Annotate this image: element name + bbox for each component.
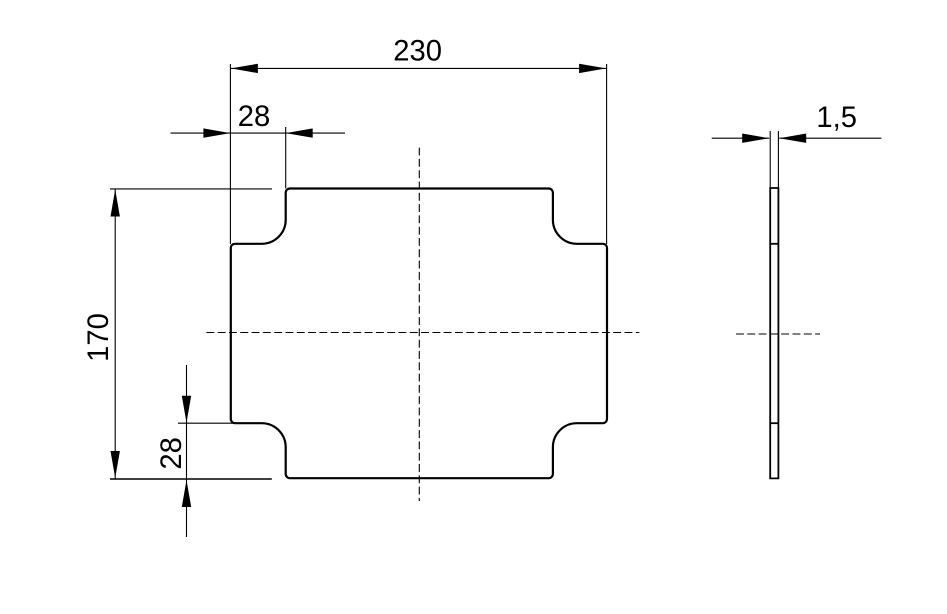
dimension line 230 xyxy=(230,67,606,69)
centerline horizontal side view xyxy=(736,333,820,335)
side view edge tick top xyxy=(770,243,778,245)
dimension line 1,5 left tail xyxy=(712,137,770,139)
arrow left dim 1,5 xyxy=(742,134,769,143)
arrow left dim 28 top xyxy=(203,128,230,137)
side view edge tick bottom xyxy=(770,422,778,424)
plate outline front view xyxy=(231,189,607,479)
svg-text:230: 230 xyxy=(393,35,442,67)
arrow top dim 170 xyxy=(111,190,120,217)
extension line right x=606.6 for dim 230 xyxy=(606,64,608,244)
extension line y=423.2 for dim 28 bottom xyxy=(178,422,235,424)
extension line bottom y=477.5 for dims 170 and 28 xyxy=(110,478,272,480)
svg-text:170: 170 xyxy=(83,313,115,362)
svg-text:28: 28 xyxy=(156,437,188,469)
centerline vertical front view xyxy=(418,148,420,501)
arrow bottom dim 170 xyxy=(111,451,120,478)
arrow right dim 1,5 xyxy=(779,134,806,143)
arrow bottom dim 28 bottom xyxy=(182,480,191,507)
arrow top dim 28 bottom xyxy=(182,396,191,423)
side view extension line left xyxy=(769,131,771,188)
side view extension line right xyxy=(777,131,779,188)
extension line top y=188.8 for dim 170 xyxy=(110,188,272,190)
dimension line 28 top with tails xyxy=(171,132,346,134)
dimension line 28 bottom with tails xyxy=(186,365,188,537)
dimension line 170 xyxy=(114,189,116,479)
arrow right dim 230 xyxy=(579,64,606,73)
extension line x=285.7 for dim 28 top xyxy=(285,127,287,189)
svg-text:1,5: 1,5 xyxy=(816,102,857,134)
side view plate body xyxy=(770,188,778,478)
arrow right dim 28 top xyxy=(286,128,313,137)
extension line left x=230.4 for dims 230 and 28 xyxy=(229,64,231,244)
dimension line 1,5 right tail xyxy=(779,137,881,139)
arrow left dim 230 xyxy=(231,64,258,73)
svg-text:28: 28 xyxy=(238,101,270,133)
centerline horizontal front view xyxy=(206,332,639,334)
